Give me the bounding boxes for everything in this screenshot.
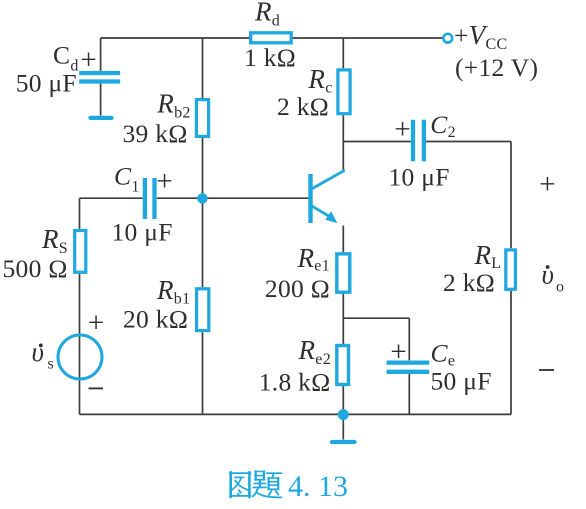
svg-text:500 Ω: 500 Ω (3, 254, 68, 283)
svg-text:o: o (556, 278, 564, 295)
svg-text:+: + (88, 307, 104, 339)
svg-text:10 μF: 10 μF (112, 218, 173, 247)
svg-text:υ: υ (542, 260, 554, 290)
svg-text:39 kΩ: 39 kΩ (123, 119, 188, 148)
svg-text:10 μF: 10 μF (389, 163, 450, 192)
svg-text:20 kΩ: 20 kΩ (123, 305, 188, 334)
svg-text:1 kΩ: 1 kΩ (244, 43, 296, 72)
svg-text:50 μF: 50 μF (16, 69, 77, 98)
svg-text:1.8 kΩ: 1.8 kΩ (259, 368, 331, 397)
svg-text:200 Ω: 200 Ω (265, 274, 330, 303)
svg-text:+: + (80, 44, 96, 76)
svg-text:+: + (539, 168, 555, 200)
svg-text:(+12 V): (+12 V) (455, 53, 538, 82)
svg-text:2 kΩ: 2 kΩ (277, 92, 329, 121)
svg-text:s: s (48, 356, 54, 373)
svg-text:4. 13: 4. 13 (288, 470, 348, 503)
svg-text:2 kΩ: 2 kΩ (443, 268, 495, 297)
svg-text:+: + (394, 114, 410, 146)
svg-text:+: + (390, 336, 406, 368)
svg-text:υ: υ (32, 337, 44, 367)
svg-text:+: + (156, 165, 172, 197)
svg-text:50 μF: 50 μF (431, 367, 492, 396)
